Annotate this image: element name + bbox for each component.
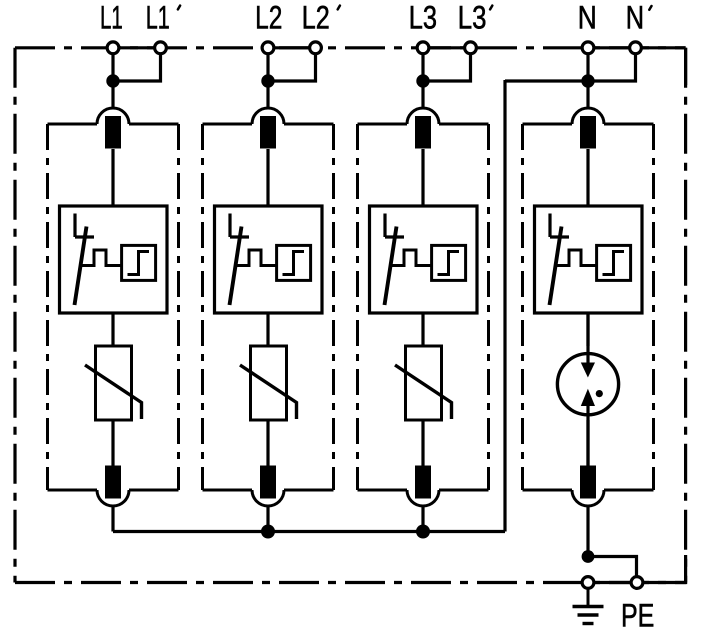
bus node dot L3 xyxy=(416,525,430,539)
wire from spark gap down xyxy=(586,404,589,466)
terminal circle L1' xyxy=(155,42,167,54)
prime tick of N' xyxy=(649,6,651,10)
enclosure dash-dot border left xyxy=(13,48,16,583)
bus riser up to N junction xyxy=(503,80,506,532)
varistor branch L2 xyxy=(240,346,297,420)
enclosure dash-dot border top xyxy=(15,46,686,49)
prime tick of L3' xyxy=(490,6,492,10)
terminal circle L3 xyxy=(417,42,429,54)
branch N xyxy=(523,54,654,506)
svg-text:L1: L1 xyxy=(100,0,123,36)
wire into spark gap top xyxy=(586,313,589,365)
L2 dome down to bus xyxy=(266,505,269,532)
spark gap circle N-PE xyxy=(557,354,618,415)
prime tick of L1' xyxy=(178,6,180,10)
svg-text:N: N xyxy=(626,1,644,36)
solid link N to N' and corner to right border xyxy=(588,46,686,49)
svg-text:PE: PE xyxy=(621,599,654,635)
svg-text:L1: L1 xyxy=(146,0,170,36)
terminal circle N xyxy=(582,42,594,54)
solid link L2 to L2' xyxy=(268,46,316,49)
solid corner right border bottom xyxy=(637,555,686,583)
solid link PE to PE' xyxy=(588,581,637,584)
terminal circle PE' xyxy=(631,577,643,589)
svg-text:L3: L3 xyxy=(409,1,437,36)
wire junction to PE' terminal xyxy=(588,557,637,578)
spark gap upper arrow (down) xyxy=(581,363,595,378)
PE junction node dot xyxy=(582,550,595,563)
terminal circle PE xyxy=(582,577,594,589)
enclosure dash-dot border bottom xyxy=(15,581,686,584)
spark gap trigger dot xyxy=(596,390,603,397)
solid link L3 to L3' xyxy=(423,46,471,49)
svg-text:N: N xyxy=(578,0,597,36)
bus riser horizontal to N junction xyxy=(505,79,588,82)
branch L3 xyxy=(358,54,489,506)
bus node dot L2 xyxy=(261,525,275,539)
terminal circle L3' xyxy=(465,42,477,54)
earth ground bar 1 xyxy=(573,605,604,608)
earth ground bar 3 xyxy=(583,622,594,625)
common bus horizontal xyxy=(113,530,505,533)
svg-text:L2: L2 xyxy=(255,1,282,37)
earth ground bar 2 xyxy=(578,613,599,616)
solid corner right border top xyxy=(684,48,687,85)
enclosure dash-dot border right xyxy=(684,48,687,583)
terminal circle L2 xyxy=(262,42,274,54)
varistor branch L1 xyxy=(85,346,142,420)
branch L1 xyxy=(48,54,179,506)
svg-text:L2: L2 xyxy=(302,1,330,37)
bus: L1 dome down to bus xyxy=(111,505,114,532)
solid link L1 to L1' xyxy=(113,46,161,49)
N branch dome to PE junction wire xyxy=(586,505,589,557)
L3 dome down to bus xyxy=(421,505,424,532)
spark gap lower arrow (up) xyxy=(581,389,595,406)
svg-text:L3: L3 xyxy=(458,1,487,36)
terminal circle L1 xyxy=(107,42,119,54)
earth ground symbol stem xyxy=(587,589,590,606)
terminal circle L2' xyxy=(310,42,322,54)
varistor branch L3 xyxy=(395,346,452,420)
prime tick of L2' xyxy=(338,6,340,10)
terminal circle N' xyxy=(630,42,642,54)
branch L2 xyxy=(203,54,334,506)
